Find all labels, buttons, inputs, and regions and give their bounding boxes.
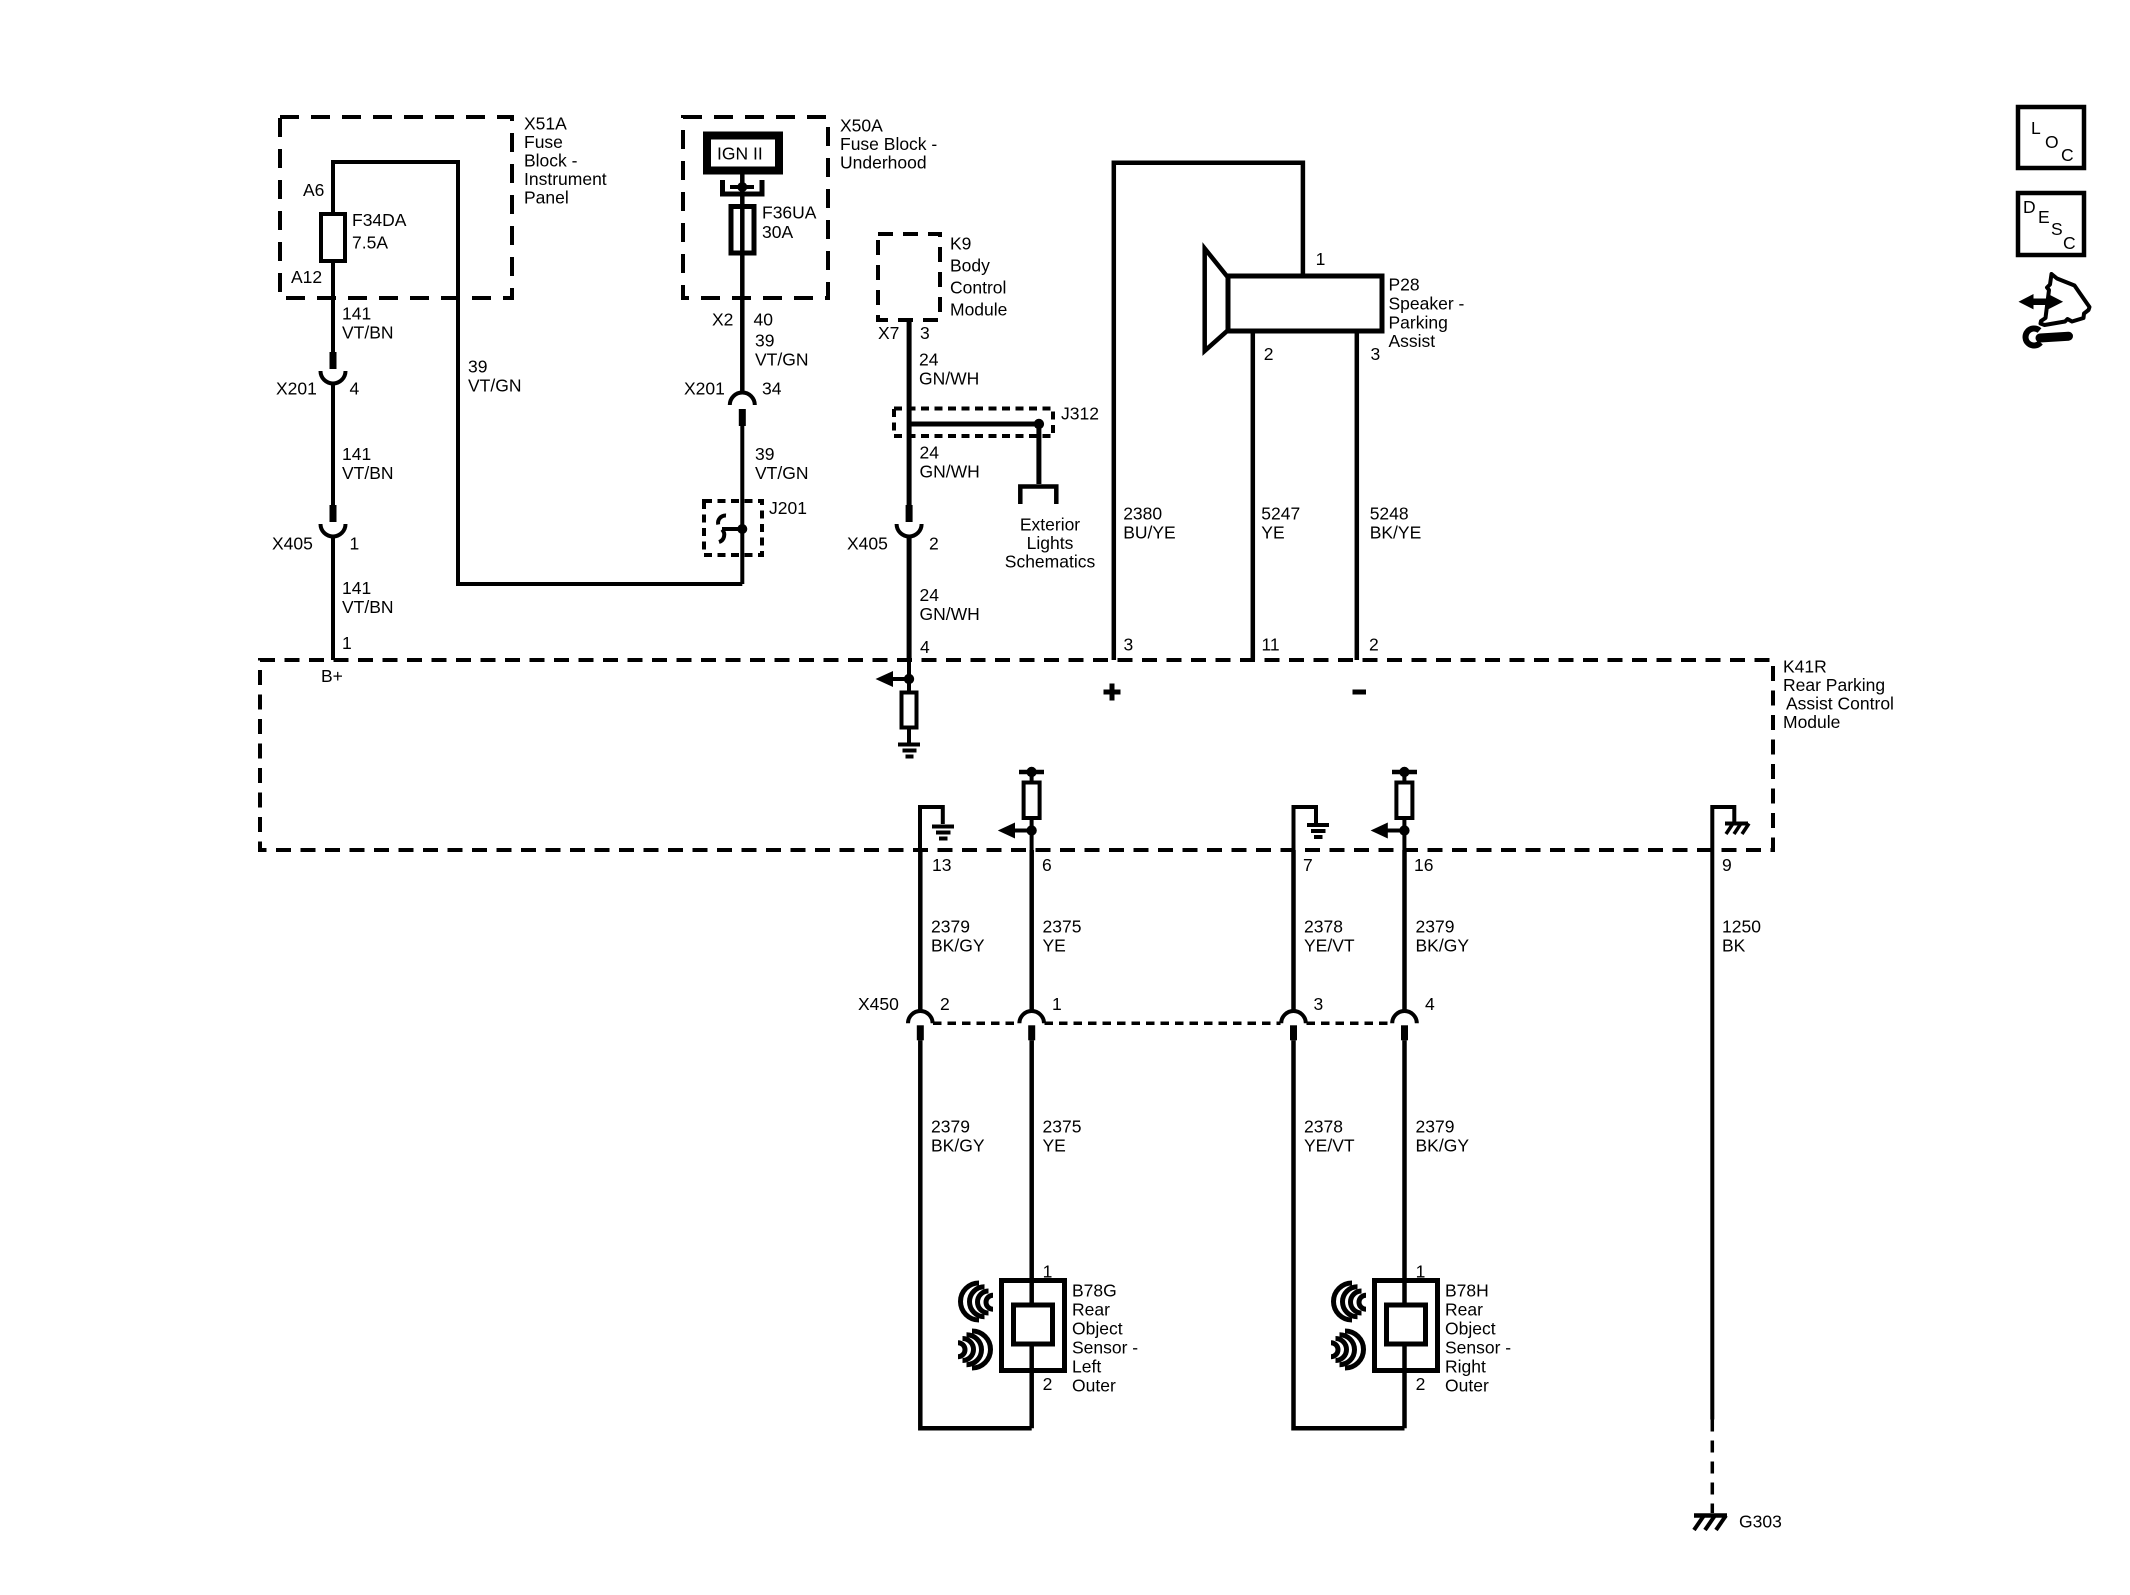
icon component view double arrow: [2019, 294, 2064, 309]
svg-text:24: 24: [920, 585, 940, 605]
wire 1250 BK dashed continuation to G303: [1711, 1420, 1715, 1514]
label B78H Rear Object Sensor - Right Outer: [1445, 1281, 1511, 1396]
wire speaker feed from K41R pin 3 up and over to P28 pin 1: [1114, 163, 1303, 660]
label B78G Rear Object Sensor - Left Outer: [1072, 1281, 1138, 1396]
svg-text:X201: X201: [684, 379, 725, 399]
K41R internal: pin 6 top bar and dot: [1019, 767, 1044, 777]
svg-text:BK/GY: BK/GY: [1416, 1136, 1470, 1156]
fuse block X51A dashed box: [280, 117, 512, 298]
svg-text:Object: Object: [1445, 1319, 1496, 1339]
svg-text:YE/VT: YE/VT: [1304, 936, 1355, 956]
svg-text:GN/WH: GN/WH: [919, 369, 979, 389]
svg-text:IGN II: IGN II: [717, 144, 763, 164]
svg-text:Right: Right: [1445, 1357, 1486, 1377]
pin label X2 40: [712, 310, 773, 330]
svg-text:2375: 2375: [1043, 917, 1082, 937]
svg-text:Object: Object: [1072, 1319, 1123, 1339]
K41R internal: arrow at pin 4: [876, 671, 910, 687]
K41R internal: pin 16 top bar and dot: [1392, 767, 1417, 777]
svg-text:40: 40: [754, 310, 774, 330]
svg-text:Left: Left: [1072, 1357, 1101, 1377]
svg-text:141: 141: [342, 304, 371, 324]
svg-text:24: 24: [920, 443, 940, 463]
svg-text:O: O: [2045, 132, 2059, 152]
wire 24 GN/WH from K9 X7-3 down through J312 to X405: [907, 320, 912, 505]
wire 5247 YE from P28 pin 2 to K41R pin 11: [1251, 331, 1256, 660]
svg-text:X7: X7: [878, 323, 899, 343]
pin label X7 3: [878, 323, 930, 343]
svg-text:Parking: Parking: [1389, 313, 1448, 333]
svg-text:S: S: [2051, 219, 2063, 239]
wire 2375 YE from X450 pin 1 to B78G pin 1: [1029, 1040, 1034, 1305]
svg-text:3: 3: [920, 323, 930, 343]
svg-text:GN/WH: GN/WH: [920, 462, 980, 482]
label X405 2: [847, 534, 939, 554]
wire 39 VT/GN jumper from A6 over to X50A column: [333, 162, 742, 584]
svg-text:VT/BN: VT/BN: [342, 323, 394, 343]
svg-text:VT/GN: VT/GN: [468, 376, 521, 396]
svg-text:5247: 5247: [1261, 504, 1300, 524]
wire branch at splice J312 to exterior lights: [909, 419, 1044, 484]
label X51A Fuse Block - Instrument Panel: [524, 114, 607, 208]
fuse block X50A dashed box: [683, 117, 828, 298]
svg-text:GN/WH: GN/WH: [920, 604, 980, 624]
svg-text:Fuse: Fuse: [524, 132, 563, 152]
svg-text:L: L: [2031, 118, 2041, 138]
svg-text:C: C: [2063, 233, 2076, 253]
svg-text:Rear: Rear: [1445, 1300, 1483, 1320]
svg-text:2379: 2379: [931, 1117, 970, 1137]
svg-text:2: 2: [1369, 635, 1379, 655]
splice J201 dashed box: [704, 501, 762, 555]
K41R internal: arrow at pin 16: [1371, 823, 1405, 839]
K41R internal: resistor at pin 6: [1024, 783, 1040, 819]
svg-text:X2: X2: [712, 310, 733, 330]
ultrasonic waves icon B78H lower: [1331, 1331, 1364, 1368]
label 5248 BK/YE: [1370, 504, 1422, 543]
connector X201 pin 4 (blade and socket): [321, 352, 346, 383]
label X50A Fuse Block - Underhood: [840, 116, 937, 173]
svg-text:B78G: B78G: [1072, 1281, 1117, 1301]
svg-text:VT/BN: VT/BN: [342, 463, 394, 483]
svg-text:YE: YE: [1043, 936, 1066, 956]
icon LOC box: [2018, 107, 2084, 168]
K41R internal: pin 9 wire hook to chassis ground: [1712, 807, 1734, 850]
bus bar IGN II: [707, 136, 779, 171]
icon wrench: [2026, 328, 2069, 345]
svg-text:39: 39: [755, 444, 774, 464]
svg-text:1250: 1250: [1722, 917, 1761, 937]
svg-text:Outer: Outer: [1445, 1376, 1489, 1396]
label K9 Body Control Module: [950, 234, 1007, 320]
K41R internal: pin 7 wire hook to ground: [1294, 807, 1317, 850]
svg-text:B+: B+: [321, 666, 343, 686]
K41R internal: signal ground at pin 13: [932, 827, 954, 839]
svg-text:1: 1: [1052, 994, 1062, 1014]
speaker P28 body: [1228, 276, 1382, 331]
svg-text:B78H: B78H: [1445, 1281, 1489, 1301]
label 141 VT/BN (segment 3): [342, 578, 394, 617]
sensor B78G body: [1002, 1281, 1065, 1371]
K41R internal: resistor at pin 16: [1396, 783, 1412, 819]
svg-text:2379: 2379: [1416, 1117, 1455, 1137]
label 5247 YE: [1261, 504, 1300, 543]
label 2378 YE/VT (lower): [1304, 1117, 1355, 1156]
svg-text:E: E: [2038, 207, 2050, 227]
svg-text:BK/GY: BK/GY: [931, 1136, 985, 1156]
label X405 1: [272, 534, 359, 554]
label X201 34: [684, 379, 782, 399]
svg-text:Rear Parking: Rear Parking: [1783, 675, 1885, 695]
svg-text:Sensor -: Sensor -: [1072, 1338, 1138, 1358]
svg-text:Exterior: Exterior: [1020, 515, 1080, 535]
svg-text:VT/GN: VT/GN: [755, 350, 808, 370]
svg-text:141: 141: [342, 444, 371, 464]
connector X450 pin 1 (socket and blade): [1019, 1011, 1044, 1040]
svg-text:24: 24: [919, 350, 939, 370]
wire 141 VT/BN from X201 to X405: [331, 384, 335, 505]
label 2378 YE/VT (upper): [1304, 917, 1355, 956]
ultrasonic waves icon B78H upper: [1334, 1283, 1366, 1320]
svg-text:4: 4: [920, 637, 930, 657]
svg-text:6: 6: [1042, 855, 1052, 875]
K41R internal: wire resistor to pin 6: [1030, 818, 1034, 850]
label K41R Rear Parking Assist Control Module: [1783, 657, 1894, 733]
svg-text:BK/GY: BK/GY: [931, 936, 985, 956]
svg-text:BK/YE: BK/YE: [1370, 523, 1422, 543]
K41R internal: chassis ground at pin 9: [1725, 824, 1749, 835]
label 39 VT/GN (left jumper): [468, 357, 521, 396]
svg-text:1: 1: [350, 534, 360, 554]
K41R internal: signal ground at pin 4: [898, 745, 920, 757]
label Exterior Lights Schematics: [1005, 515, 1096, 572]
svg-text:X405: X405: [272, 534, 313, 554]
svg-text:2379: 2379: [1416, 917, 1455, 937]
svg-text:D: D: [2023, 197, 2036, 217]
module K9 Body Control Module dashed box: [878, 234, 940, 320]
svg-text:Body: Body: [950, 256, 990, 276]
ultrasonic waves icon B78G lower: [958, 1331, 991, 1368]
svg-text:X201: X201: [276, 379, 317, 399]
K41R internal: wire bar to resistor pin 16: [1402, 772, 1406, 783]
connector X450 pin 2 (socket and blade): [908, 1011, 933, 1040]
speaker P28 cone: [1205, 249, 1228, 351]
label 2379 BK/GY (upper right): [1416, 917, 1470, 956]
icon DESC box: [2018, 193, 2084, 255]
svg-text:2380: 2380: [1123, 504, 1162, 524]
label P28 Speaker - Parking Assist: [1389, 275, 1465, 352]
svg-text:2: 2: [1043, 1374, 1053, 1394]
svg-text:Schematics: Schematics: [1005, 552, 1096, 572]
wire through fuse F36UA down to X201: [740, 207, 745, 393]
svg-text:2: 2: [929, 534, 939, 554]
K41R internal: wire pin 4 to resistor: [907, 660, 911, 693]
svg-text:Rear: Rear: [1072, 1300, 1110, 1320]
wire 1250 BK from K41R pin 9 to G303: [1710, 850, 1714, 1420]
svg-text:39: 39: [755, 331, 774, 351]
svg-text:7.5A: 7.5A: [352, 233, 388, 253]
svg-text:G303: G303: [1739, 1512, 1782, 1532]
svg-text:16: 16: [1414, 855, 1433, 875]
svg-text:VT/GN: VT/GN: [755, 463, 808, 483]
fuse holder bracket under IGN II: [723, 180, 763, 194]
wire 141 VT/BN from A12 to X201: [331, 261, 335, 352]
wire 2379 BK/GY from K41R pin 13 to X450 pin 2: [918, 850, 923, 1012]
label 2379 BK/GY (lower left): [931, 1117, 985, 1156]
fuse F36UA 30A: [731, 207, 754, 254]
svg-text:J201: J201: [769, 498, 807, 518]
label 2379 BK/GY (lower right): [1416, 1117, 1470, 1156]
K41R internal: junction dot at pin 6: [1026, 825, 1036, 835]
label 141 VT/BN (segment 1): [342, 304, 394, 343]
svg-text:X51A: X51A: [524, 114, 567, 134]
svg-text:C: C: [2061, 145, 2074, 165]
connector X450 pin 3 (socket and blade): [1281, 1011, 1306, 1040]
svg-text:Assist Control: Assist Control: [1786, 694, 1894, 714]
label 24 GN/WH (segment 3): [920, 585, 980, 624]
svg-text:Lights: Lights: [1027, 533, 1074, 553]
label 2379 BK/GY (upper left): [931, 917, 985, 956]
svg-text:11: 11: [1262, 635, 1280, 655]
label 2380 BU/YE: [1123, 504, 1176, 543]
connector X450 pin 4 (socket and blade): [1392, 1011, 1417, 1040]
svg-text:2: 2: [1264, 344, 1274, 364]
svg-text:J312: J312: [1061, 404, 1099, 424]
label 2375 YE (upper): [1043, 917, 1082, 956]
connector X405 pin 2 (blade and socket): [897, 505, 922, 537]
label X201 4: [276, 379, 360, 399]
K41R internal: wire resistor to ground: [907, 728, 911, 743]
svg-text:13: 13: [932, 855, 951, 875]
svg-text:P28: P28: [1389, 275, 1420, 295]
svg-text:2: 2: [1416, 1374, 1426, 1394]
svg-text:4: 4: [1425, 994, 1435, 1014]
wire through B78G to pin 2 exit: [1029, 1344, 1034, 1428]
sensor B78H inner element: [1387, 1305, 1426, 1344]
off-page connector symbol (exterior lights schematics): [1020, 487, 1056, 505]
K41R internal: pin 4 junction dot: [904, 674, 914, 684]
wire 141 VT/BN from X405 to K41R pin 1: [331, 537, 335, 660]
svg-text:Underhood: Underhood: [840, 153, 927, 173]
svg-text:7: 7: [1303, 855, 1313, 875]
connector X201 pin 34 (socket and blade): [730, 392, 755, 426]
svg-text:30A: 30A: [762, 222, 793, 242]
svg-text:3: 3: [1314, 994, 1324, 1014]
svg-text:Sensor -: Sensor -: [1445, 1338, 1511, 1358]
connector X450 dashed harness line: [933, 1022, 1392, 1026]
svg-text:YE: YE: [1043, 1136, 1066, 1156]
svg-text:2375: 2375: [1043, 1117, 1082, 1137]
svg-text:A12: A12: [291, 267, 322, 287]
svg-text:5248: 5248: [1370, 504, 1409, 524]
svg-text:Control: Control: [950, 278, 1006, 298]
svg-text:1: 1: [1316, 249, 1326, 269]
wire 2378 YE/VT from K41R pin 7 to X450 pin 3: [1291, 850, 1296, 1012]
svg-text:Panel: Panel: [524, 188, 569, 208]
wire IGN II to fuse F36UA: [740, 174, 745, 207]
icon component outline shape: [2041, 274, 2090, 325]
K41R internal: junction dot at pin 16: [1399, 825, 1409, 835]
wire 24 GN/WH from X405 to K41R pin 4: [907, 537, 912, 660]
label 24 GN/WH (segment 2): [920, 443, 980, 482]
wire 2379 BK/GY from X450 pin 4 to B78H pin 1: [1402, 1040, 1407, 1305]
svg-text:X50A: X50A: [840, 116, 883, 136]
label 39 VT/GN (segment 1): [755, 331, 808, 370]
svg-text:X450: X450: [858, 994, 899, 1014]
svg-text:F34DA: F34DA: [352, 210, 407, 230]
label 2375 YE (lower): [1043, 1117, 1082, 1156]
label 24 GN/WH (segment 1): [919, 350, 979, 389]
svg-text:F36UA: F36UA: [762, 203, 817, 223]
svg-text:K41R: K41R: [1783, 657, 1827, 677]
svg-text:YE/VT: YE/VT: [1304, 1136, 1355, 1156]
svg-text:Outer: Outer: [1072, 1376, 1116, 1396]
svg-text:Assist: Assist: [1389, 331, 1436, 351]
svg-text:9: 9: [1722, 855, 1732, 875]
connector X405 pin 1 (blade and socket): [321, 505, 346, 537]
value label F34DA 7.5A: [352, 210, 407, 253]
wire 5248 BK/YE from P28 pin 3 to K41R pin 2: [1355, 331, 1360, 660]
value label F36UA 30A: [762, 203, 817, 243]
K41R internal: pin 13 wire hook to ground: [920, 807, 943, 850]
wire 2379 BK/GY from K41R pin 16 to X450 pin 4: [1402, 850, 1407, 1012]
svg-text:3: 3: [1371, 344, 1381, 364]
svg-text:YE: YE: [1261, 523, 1284, 543]
wire 2375 YE from K41R pin 6 to X450 pin 1: [1029, 850, 1034, 1012]
svg-text:Instrument: Instrument: [524, 169, 607, 189]
label 1250 BK: [1722, 917, 1761, 956]
wire through B78H to pin 2 exit: [1402, 1344, 1407, 1428]
K41R internal: wire resistor to pin 16: [1402, 818, 1406, 850]
svg-text:A6: A6: [303, 180, 324, 200]
K41R internal: signal ground at pin 7: [1307, 825, 1329, 837]
svg-text:39: 39: [468, 357, 487, 377]
svg-text:2378: 2378: [1304, 1117, 1343, 1137]
label 141 VT/BN (segment 2): [342, 444, 394, 483]
svg-text:Module: Module: [950, 300, 1007, 320]
sensor B78G inner element: [1014, 1305, 1053, 1344]
svg-text:2: 2: [940, 994, 950, 1014]
module K41R Rear Parking Assist Control Module dashed box: [260, 660, 1773, 850]
ultrasonic waves icon B78G upper: [961, 1283, 994, 1320]
svg-text:Module: Module: [1783, 712, 1840, 732]
svg-text:2379: 2379: [931, 917, 970, 937]
svg-text:141: 141: [342, 578, 371, 598]
svg-text:BK: BK: [1722, 936, 1746, 956]
node - polarity mark: [1353, 690, 1367, 695]
K41R internal: wire bar to resistor pin 6: [1030, 772, 1034, 783]
sensor B78H body: [1375, 1281, 1438, 1371]
svg-text:Fuse Block -: Fuse Block -: [840, 134, 937, 154]
fuse F34DA 7.5A: [321, 214, 345, 261]
svg-text:BK/GY: BK/GY: [1416, 936, 1470, 956]
svg-text:Block -: Block -: [524, 151, 578, 171]
svg-text:34: 34: [762, 379, 782, 399]
K41R internal: resistor at pin 4: [902, 693, 917, 728]
svg-text:X405: X405: [847, 534, 888, 554]
node + polarity mark: [1104, 684, 1121, 701]
svg-text:Speaker -: Speaker -: [1389, 294, 1465, 314]
label 39 VT/GN (segment 2): [755, 444, 808, 483]
wire 2379 BK/GY from X450 pin 2 down to B78G pin 2 loop: [920, 1040, 1031, 1428]
svg-text:3: 3: [1124, 635, 1134, 655]
splice J201 symbol: [718, 515, 747, 542]
K41R internal: arrow at pin 6: [998, 823, 1032, 839]
svg-text:BU/YE: BU/YE: [1123, 523, 1176, 543]
svg-text:VT/BN: VT/BN: [342, 597, 394, 617]
splice J312 dashed box: [894, 409, 1053, 437]
ground G303 chassis symbol: [1694, 1516, 1727, 1531]
svg-text:4: 4: [350, 379, 360, 399]
wire 2378 YE/VT from X450 pin 3 down to B78H pin 2 loop: [1294, 1040, 1405, 1428]
svg-text:K9: K9: [950, 234, 971, 254]
svg-text:2378: 2378: [1304, 917, 1343, 937]
svg-text:1: 1: [342, 633, 352, 653]
wire 39 VT/GN from X201 to J201: [740, 426, 744, 584]
